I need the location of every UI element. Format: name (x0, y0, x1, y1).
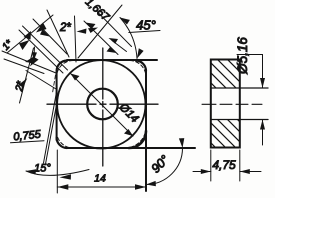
arrowhead 1667 lower (107, 47, 117, 53)
corner arc bottom-right (129, 131, 146, 148)
small arrow 1star lower (25, 57, 34, 63)
horizontal centerline (47, 103, 158, 105)
dim 475 line left part (193, 171, 211, 173)
arrowhead steep upper pointing down (30, 57, 39, 67)
arrowhead 475 left (201, 169, 211, 174)
fan line chamfer c (33, 19, 67, 54)
o516 dim line lower (262, 120, 264, 145)
fan line chamfer b (19, 30, 63, 73)
svg-text:45°: 45° (136, 18, 156, 33)
dim 475 extension left (210, 150, 212, 181)
fan line lower left (2, 51, 56, 73)
vertical centerline (102, 48, 104, 166)
square insert outline right edge (145, 71, 147, 191)
arrowhead o516 up (260, 120, 265, 130)
45 degree dimension arc (120, 18, 137, 59)
dashed alternate corner arc top-left (57, 61, 73, 78)
dim 475 line right part (240, 171, 261, 173)
svg-text:Ø5,16: Ø5,16 (235, 37, 250, 75)
arrowhead at circle lower-right (124, 129, 133, 136)
corner arc top-left (57, 61, 67, 72)
arrowhead 1star down-left on diagonal (36, 23, 47, 33)
o516 shelf (237, 54, 263, 56)
hole lower edge with extension (211, 119, 268, 121)
15 degree arc (26, 170, 89, 176)
small arrow pointing down mid fan (33, 47, 36, 56)
arrowhead 45 bottom (137, 48, 144, 58)
square insert outline top edge (67, 59, 157, 61)
fan line vertical from corner (75, 16, 77, 62)
arrowhead 90 top (179, 138, 184, 148)
dim line 1667 inner (84, 21, 118, 55)
fan line chamfer d (47, 10, 69, 57)
square insert outline bottom edge (67, 147, 195, 149)
leader arrow upper mid pointing at facet (112, 41, 127, 52)
dashed alternate corner arc bottom-right (125, 127, 146, 148)
arrowhead 15 right (60, 174, 72, 179)
hatch top section (191, 48, 268, 105)
slanted side line 15deg b (46, 94, 59, 164)
inscribed circle d14 (57, 60, 145, 148)
center hole circle (87, 89, 118, 120)
label 45 shelf (129, 31, 160, 33)
fan line lower left second (4, 59, 44, 74)
diameter dimension line o14 (71, 74, 134, 137)
90 degree dimension arc (146, 148, 183, 185)
dimension 14 extension line left (56, 150, 58, 193)
small arrows 2star (77, 29, 87, 34)
hatch bottom section (191, 108, 268, 165)
svg-text:2*: 2* (59, 22, 71, 34)
dimension line 1667 (97, 12, 132, 47)
arrowhead 15 left (26, 169, 36, 174)
arrowhead o516 down (260, 78, 265, 88)
o516 dim line upper (262, 55, 264, 89)
hole upper edge with extension (211, 87, 268, 89)
leader 0755 (11, 141, 45, 143)
dim 475 extension right (239, 150, 241, 181)
arrowhead 1star up-right on diagonal (19, 40, 30, 50)
slanted side line 15deg a (44, 92, 57, 163)
arrowhead 475 right (240, 169, 250, 174)
square insert outline left edge (56, 71, 58, 140)
dimension line 1star diagonal (7, 15, 53, 53)
arrowhead 14 right (135, 184, 146, 189)
corner arc top-right (136, 61, 146, 72)
corner arc bottom-left (57, 138, 67, 149)
dimension 14 line (57, 186, 146, 188)
corner facet line (45) extension (78, 5, 122, 58)
svg-text:14: 14 (94, 173, 106, 185)
small arrow 1star upper (24, 31, 32, 40)
arrowhead 1667 upper (86, 23, 96, 29)
fan line lower left third (26, 71, 56, 90)
fan line chamfer a (23, 26, 68, 70)
svg-text:15°: 15° (34, 163, 51, 175)
arrowhead 45 top (120, 18, 130, 25)
arrowhead 90 bottom (146, 181, 156, 186)
arrowhead at circle upper-left (71, 74, 80, 81)
svg-text:4,75: 4,75 (212, 158, 236, 172)
steep dimension line 2star left (20, 48, 34, 103)
dashed fragment above slanted lines (53, 75, 56, 93)
arrowhead steep lower pointing up (18, 78, 27, 88)
arrowhead on chamfer line c (40, 30, 50, 37)
side view rect (211, 60, 240, 148)
side view centerline dashed (202, 103, 262, 105)
dashed alternate corner arc bottom-left (57, 132, 73, 149)
dashed alternate corner arc top-right (130, 61, 146, 78)
arrowhead 14 left (57, 184, 68, 189)
